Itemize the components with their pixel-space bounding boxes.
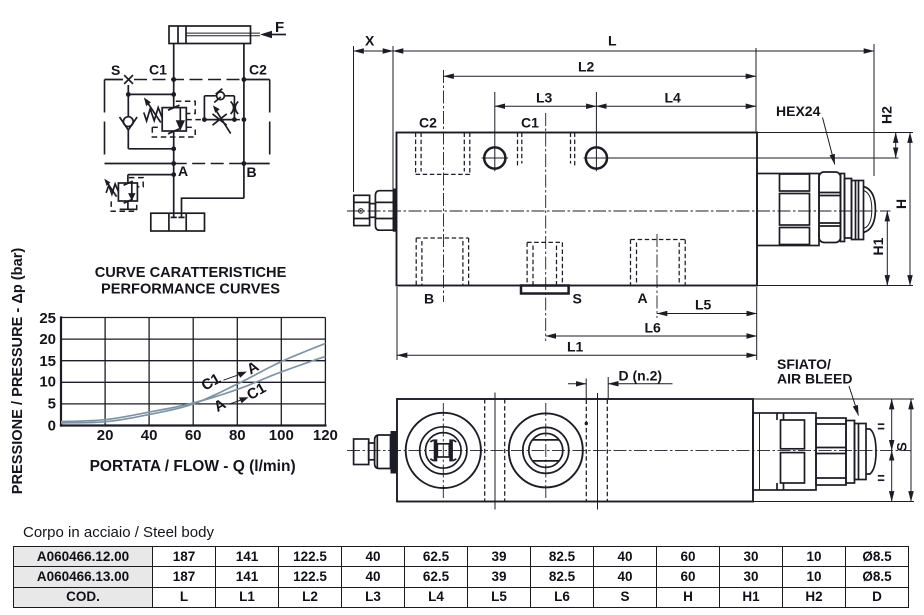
node A xyxy=(171,161,188,179)
node C2 xyxy=(242,77,247,82)
svg-text:L6: L6 xyxy=(645,320,662,336)
svg-text:10: 10 xyxy=(39,374,56,391)
wire V1 outlet down xyxy=(173,131,175,175)
svg-text:C2: C2 xyxy=(249,62,267,78)
port hole 2 (counterbore circles) xyxy=(509,413,583,487)
dim L3 xyxy=(495,90,597,107)
mounting hole D2 (circle) xyxy=(584,92,899,171)
chart title xyxy=(95,265,287,298)
check valve (bypass, ball in seat) xyxy=(120,117,138,149)
dim H1 xyxy=(870,211,887,286)
wire A to secondary relief xyxy=(128,175,174,183)
port S boss xyxy=(521,286,569,294)
svg-text:S: S xyxy=(573,291,582,307)
svg-text:A: A xyxy=(638,290,648,306)
x axis labels xyxy=(97,427,338,444)
centerline port 2 xyxy=(545,403,547,498)
y axis labels xyxy=(39,310,56,435)
svg-text:L4: L4 xyxy=(665,90,682,106)
wire S branch vertical xyxy=(127,85,129,117)
chart grid xyxy=(60,316,327,426)
dim S xyxy=(894,399,912,502)
port hole 1 (counterbore circles) xyxy=(406,413,481,488)
steel body note xyxy=(23,524,214,541)
svg-text:H1: H1 xyxy=(870,237,886,255)
svg-text:L2: L2 xyxy=(578,59,595,75)
adjustment arrow V1 xyxy=(144,97,161,122)
svg-text:L3: L3 xyxy=(536,90,553,106)
svg-text:S: S xyxy=(894,442,910,451)
centerline C2/B xyxy=(443,70,445,302)
centerline port 1 xyxy=(442,403,444,498)
through hole D left xyxy=(485,393,505,510)
spring V1 xyxy=(144,108,162,121)
svg-text:PRESSIONE / PRESSURE - Δp (bar: PRESSIONE / PRESSURE - Δp (bar) xyxy=(10,248,26,495)
svg-text:H2: H2 xyxy=(879,106,895,124)
manifold block xyxy=(151,213,205,231)
node C1 xyxy=(171,77,176,82)
port C1 hidden hole xyxy=(518,133,575,167)
wire B line to manifold xyxy=(182,198,244,217)
svg-text:B: B xyxy=(424,291,434,307)
svg-text:20: 20 xyxy=(39,331,56,348)
cylinder (actuator) xyxy=(169,26,260,44)
dimension table xyxy=(13,546,909,608)
wire check valve to main line xyxy=(128,146,176,151)
fixed restrictor (metering branch) xyxy=(231,101,239,114)
svg-text:120: 120 xyxy=(313,427,338,444)
svg-text:0: 0 xyxy=(48,417,56,434)
svg-text:C1: C1 xyxy=(521,115,539,131)
bottom cartridge neck xyxy=(753,413,816,490)
wire C2 line down xyxy=(243,80,245,199)
leader HEX24 xyxy=(776,103,835,165)
pilot dashed box V1 bottom xyxy=(152,127,195,137)
curve label A to C1 xyxy=(211,380,269,416)
dim H2 xyxy=(757,106,913,158)
cartridge cap xyxy=(841,174,876,242)
valve body bottom view xyxy=(397,399,753,502)
dim L2 xyxy=(444,48,757,133)
label SFIATO / AIR BLEED xyxy=(777,356,859,416)
svg-text:60: 60 xyxy=(185,427,202,444)
curve A to C1 xyxy=(61,356,325,421)
wire A line down to manifold xyxy=(173,175,175,218)
variable restrictor with arrow xyxy=(213,105,231,133)
curve label C1 to A xyxy=(199,358,263,394)
centerline C1/S xyxy=(545,113,547,341)
svg-text:L5: L5 xyxy=(695,297,712,313)
svg-text:AIR BLEED: AIR BLEED xyxy=(777,371,852,387)
svg-text:5: 5 xyxy=(48,395,56,412)
dim D (n.2) xyxy=(568,368,673,400)
counterbalance relief valve V1 xyxy=(162,105,186,134)
node B xyxy=(242,161,257,180)
left test plug bottom view xyxy=(354,431,397,474)
svg-text:A: A xyxy=(211,395,229,415)
svg-text:L1: L1 xyxy=(567,339,584,355)
main axis centerline xyxy=(347,210,891,212)
svg-text:X: X xyxy=(365,33,375,49)
adjustment arrow V2 xyxy=(104,179,116,197)
wire metering branch to C2 line xyxy=(232,117,246,122)
check valve (metering branch) xyxy=(214,89,224,103)
wire cylinder rod side to C1 xyxy=(173,44,175,80)
svg-text:HEX24: HEX24 xyxy=(776,103,821,119)
curve C1 to A xyxy=(61,343,325,423)
mounting hole D1 (circle) xyxy=(482,92,509,171)
cartridge neck xyxy=(757,174,819,246)
centerline A xyxy=(656,234,658,318)
dim H xyxy=(757,133,913,286)
port C2 hidden hole xyxy=(416,133,470,175)
svg-text:20: 20 xyxy=(97,427,114,444)
dim X xyxy=(354,33,394,193)
force arrow F xyxy=(260,19,286,38)
pilot dashed box V1 top right xyxy=(176,101,195,113)
secondary relief valve V2 xyxy=(118,181,137,203)
svg-text:100: 100 xyxy=(269,427,294,444)
dim L5 xyxy=(657,287,757,360)
port S hidden hole xyxy=(527,242,562,285)
through hole D right xyxy=(585,393,608,510)
dim L1 xyxy=(397,287,757,360)
wire pilot branch junction xyxy=(126,92,176,97)
svg-text:15: 15 xyxy=(39,353,56,370)
svg-text:PORTATA / FLOW - Q (l/min): PORTATA / FLOW - Q (l/min) xyxy=(90,458,296,475)
svg-text:PERFORMANCE CURVES: PERFORMANCE CURVES xyxy=(101,282,280,298)
port A hidden hole xyxy=(631,240,686,286)
dim S equal marks xyxy=(754,399,915,502)
dim L4 xyxy=(596,90,756,107)
svg-text:F: F xyxy=(275,19,284,36)
svg-text:B: B xyxy=(247,164,257,180)
port B hidden hole xyxy=(416,238,468,286)
bottom cartridge cap xyxy=(846,421,876,484)
svg-text:C2: C2 xyxy=(419,115,437,131)
cartridge hex nut HEX24 xyxy=(819,172,841,243)
left test plug xyxy=(354,189,397,232)
dim L xyxy=(393,33,874,177)
pilot dashed box V2 bottom xyxy=(111,201,137,211)
svg-text:H: H xyxy=(893,199,909,209)
svg-text:C1: C1 xyxy=(149,62,167,78)
svg-text:25: 25 xyxy=(39,310,56,327)
metering branch frame xyxy=(204,96,234,120)
pilot dashed box V2 top right xyxy=(129,178,143,187)
wire C1 to relief valve xyxy=(173,80,175,108)
svg-text:S: S xyxy=(111,62,120,78)
bottom view axis centerline xyxy=(347,449,911,451)
svg-text:D (n.2): D (n.2) xyxy=(619,368,663,384)
drain line V2 to tank xyxy=(120,201,137,209)
svg-text:40: 40 xyxy=(141,427,158,444)
svg-text:A: A xyxy=(178,163,188,179)
pilot line V1 to metering branch xyxy=(186,117,207,122)
valve body xyxy=(397,133,758,286)
svg-text:CURVE CARATTERISTICHE: CURVE CARATTERISTICHE xyxy=(95,265,287,281)
dim L6 xyxy=(546,320,757,337)
svg-text:L: L xyxy=(608,33,617,49)
svg-text:C1: C1 xyxy=(199,370,224,394)
bottom cartridge hex xyxy=(816,418,846,485)
svg-text:80: 80 xyxy=(229,427,246,444)
plugged port S (x symbol) xyxy=(124,75,133,84)
svg-text:C1: C1 xyxy=(244,380,269,404)
wire cylinder bore side to C2 xyxy=(243,44,245,80)
spring V2 xyxy=(106,184,118,194)
valve envelope (dashed boundary) xyxy=(105,80,270,164)
